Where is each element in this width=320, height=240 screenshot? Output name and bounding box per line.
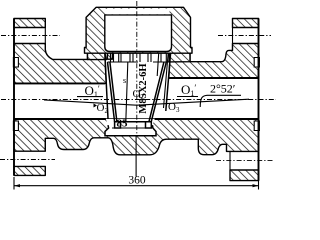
- right gasket notch bottom: [254, 121, 259, 131]
- label O2 left: [94, 104, 98, 108]
- right flange face: [258, 19, 260, 181]
- svg-text:360: 360: [128, 175, 146, 187]
- left flange bottom slot top edge: [44, 138, 46, 151]
- left flange bolt centerline top: [1, 35, 60, 37]
- bore bottom line left: [14, 118, 106, 120]
- leader for angle: [200, 95, 207, 107]
- plug foot right: [146, 122, 152, 128]
- plug inner right line: [157, 53, 159, 76]
- left flange bolt centerline bottom: [0, 159, 55, 161]
- bore bottom line right: [155, 118, 259, 120]
- dim 360 line: [14, 185, 259, 187]
- right gasket notch: [254, 58, 259, 68]
- svg-text:M85X2-6H: M85X2-6H: [138, 63, 149, 113]
- seat recess outline: [105, 125, 156, 136]
- svg-text:O1′: O1′: [181, 82, 196, 98]
- right flange bottom slot edges: [229, 151, 231, 170]
- left flange top band: [14, 19, 45, 28]
- right upper metal: [169, 44, 259, 79]
- dim 360 extension lines: [14, 177, 259, 190]
- plug stem verticals: [111, 53, 170, 62]
- tilted axis left: [44, 100, 137, 105]
- left flange bolt slot: [44, 28, 46, 50]
- plug left flank (double): [108, 62, 117, 122]
- neck right thread region: [169, 53, 190, 62]
- svg-text:2°52′: 2°52′: [210, 82, 236, 96]
- right flange top band: [233, 19, 259, 28]
- left gasket notch: [13, 58, 18, 68]
- right flange bolt centerline bottom: [216, 160, 273, 162]
- main horizontal axis: [1, 99, 276, 101]
- bore top line right: [169, 77, 259, 79]
- gland block left: [107, 53, 112, 59]
- tilted axis right: [137, 99, 249, 105]
- cap top band lightening: [107, 9, 170, 15]
- bore top line left: [14, 82, 105, 84]
- seat hole left wall: [105, 53, 108, 119]
- seat hole right wall inner: [164, 53, 169, 108]
- svg-text:s: s: [123, 76, 126, 85]
- thread lines: [90, 53, 188, 62]
- seat hole right wall: [166, 53, 171, 111]
- plug bottom edge: [117, 121, 149, 123]
- left gasket notch bottom: [13, 121, 18, 131]
- left flange face: [13, 19, 15, 176]
- plug inner left line: [126, 63, 128, 122]
- seat recess white: [105, 119, 156, 136]
- left flange bottom band: [14, 166, 45, 175]
- neck left thread region: [88, 53, 107, 59]
- right flange bolt centerline top: [218, 35, 271, 37]
- vertical centerline: [136, 1, 138, 52]
- plug foot left: [115, 122, 121, 128]
- right flange bolt slot edge: [232, 28, 234, 51]
- plug top edges: [108, 61, 171, 63]
- plug right flank (double): [149, 62, 166, 122]
- bonnet cap body: [85, 7, 193, 53]
- bottom wall: [14, 119, 259, 155]
- left flange upper metal: [14, 44, 106, 84]
- right flange bottom band: [230, 170, 259, 181]
